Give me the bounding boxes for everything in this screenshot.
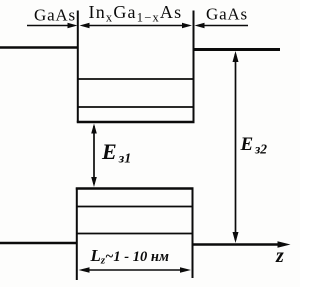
left heterojunction boundary tick + conduction well left wall (77, 11, 79, 123)
hole energy level 2 in well (77, 233, 193, 235)
z axis (right valence band edge with arrow) (192, 241, 291, 248)
valence well top edge (76, 187, 194, 189)
conduction well bottom (77, 121, 195, 124)
valence well right wall + Lz dimension tick (192, 188, 194, 279)
Lz width dimension arrow (double headed) (79, 267, 192, 273)
valence well left wall + Lz dimension tick (76, 188, 78, 281)
electron energy level 2 in well (78, 106, 194, 108)
svg-text:E: E (101, 139, 117, 164)
dimension line right GaAs region (arrow into right boundary tick) (195, 23, 249, 28)
svg-text:InxGa1−xAs: InxGa1−xAs (89, 2, 183, 25)
svg-text:E: E (240, 134, 254, 155)
right heterojunction boundary tick + conduction well right wall (193, 11, 195, 123)
Ez1 bandgap arrow (double headed, between wells) (91, 124, 97, 188)
conduction band edge: left GaAs barrier line (0, 46, 78, 49)
dimension line left GaAs region (arrow into left boundary tick) (27, 23, 78, 28)
electron energy level 1 in well (78, 78, 194, 80)
svg-text:GaAs: GaAs (206, 5, 248, 24)
conduction band edge: right GaAs barrier line (193, 48, 281, 51)
svg-text:z: z (275, 245, 284, 267)
valence band edge: left GaAs barrier line (0, 242, 78, 245)
svg-text:з2: з2 (254, 142, 267, 157)
Ez2 bandgap arrow (double headed, GaAs gap) (233, 51, 239, 243)
hole energy level 1 in well (77, 206, 193, 208)
svg-text:з1: з1 (118, 152, 131, 167)
svg-text:GaAs: GaAs (34, 6, 76, 25)
dimension line InGaAs well region (arrows out to both ticks) (80, 23, 193, 28)
